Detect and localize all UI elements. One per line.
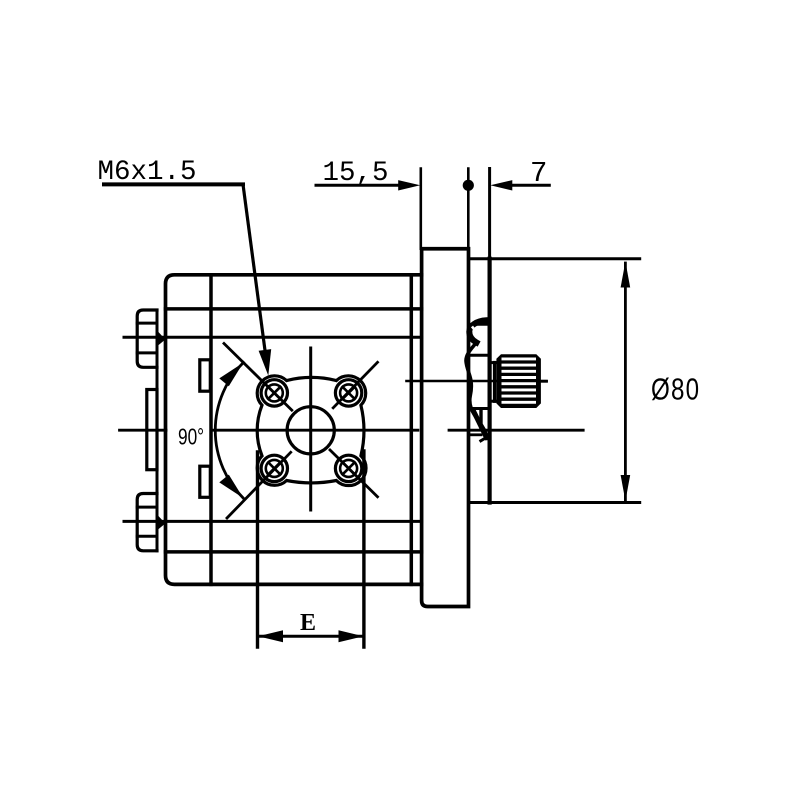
- centerline stub right of spline: [541, 380, 547, 383]
- O80 bottom extension line: [469, 501, 640, 504]
- seal bottom lip: [474, 411, 487, 437]
- seal top lip: [469, 320, 486, 342]
- dim extension line x=489.6: [488, 169, 491, 259]
- rear hub right edge (O80 cylinder): [488, 259, 492, 503]
- 90 deg arc arrow top: [219, 363, 243, 386]
- svg-text:Ø80: Ø80: [651, 372, 700, 407]
- rear cover face line: [156, 310, 159, 551]
- left port boss: [147, 390, 157, 470]
- shaft top line in hub: [469, 354, 490, 357]
- hole diagonal TR: [333, 362, 377, 408]
- svg-text:M6x1.5: M6x1.5: [98, 157, 197, 188]
- central circle: [287, 407, 334, 454]
- svg-text:15,5: 15,5: [323, 158, 389, 189]
- 7 dim line: [512, 184, 550, 187]
- svg-text:90°: 90°: [178, 425, 204, 450]
- bolt point wedge top: [158, 332, 165, 346]
- M6x1.5 leader line: [243, 184, 267, 364]
- bottom bolt centerline y=521.4: [124, 520, 422, 523]
- seal slit white: [473, 328, 479, 336]
- 90 deg arc arrow bottom: [219, 475, 243, 498]
- body section line y=551.9: [166, 550, 422, 554]
- hole diagonal BL: [227, 452, 291, 518]
- dowel slot top: [200, 360, 211, 391]
- seal bore top line: [469, 323, 490, 326]
- 15,5 dim line: [316, 184, 399, 187]
- body joint vertical x=211: [209, 275, 213, 585]
- hex bolt top: [137, 310, 157, 367]
- O80 top extension line: [469, 257, 640, 260]
- shaft collar: [493, 363, 496, 402]
- E extension line left: [256, 452, 259, 647]
- dim extension line x=468.3: [467, 169, 470, 249]
- seal inner vertical: [479, 410, 482, 429]
- shaft neck top: [490, 361, 497, 364]
- body joint vertical x=411.3: [410, 275, 414, 585]
- hex bolt bottom: [137, 494, 157, 551]
- hole diagonal TL: [224, 344, 292, 411]
- hole diagonal BR: [330, 450, 378, 497]
- svg-text:E: E: [300, 610, 316, 636]
- M6x1.5 underline: [104, 182, 243, 186]
- 15,5 arrowhead: [398, 180, 420, 190]
- dowel slot bottom: [200, 466, 211, 497]
- shaft centerline: [407, 380, 547, 383]
- spline block: [496, 354, 541, 408]
- bolt hole TL: [261, 380, 287, 406]
- main horizontal centerline: [120, 429, 167, 432]
- E arrow right: [339, 630, 364, 642]
- front view vertical centerline: [309, 348, 312, 510]
- mounting flange plate: [422, 249, 469, 607]
- M6 leader arrowhead: [259, 349, 272, 376]
- O80 arrow top: [621, 262, 631, 288]
- 90 degree arc: [215, 363, 243, 499]
- bolt hole TR: [335, 380, 361, 406]
- bolt hole BR: [335, 455, 361, 481]
- seal squiggle: [466, 343, 487, 439]
- O80 dim line: [624, 263, 627, 500]
- flange outline: [257, 376, 366, 486]
- pump body outline: [166, 275, 422, 585]
- shaft neck bottom: [490, 400, 497, 403]
- O80 arrow bottom: [621, 475, 631, 501]
- 15,5 dot: [463, 180, 474, 191]
- svg-text:7: 7: [530, 157, 547, 190]
- top bolt centerline y=337.3: [124, 336, 422, 339]
- body section line y=308.9: [166, 307, 422, 311]
- dim extension line x=420.8: [419, 169, 422, 249]
- bolt hole BL: [261, 455, 287, 481]
- E extension line right: [362, 451, 365, 647]
- 7 arrowhead: [490, 180, 512, 190]
- E dim line: [259, 635, 363, 638]
- E arrow left: [258, 630, 283, 642]
- seal bore bottom line: [469, 433, 482, 436]
- shaft bottom line in hub: [469, 407, 490, 410]
- bolt point wedge bottom: [158, 516, 165, 530]
